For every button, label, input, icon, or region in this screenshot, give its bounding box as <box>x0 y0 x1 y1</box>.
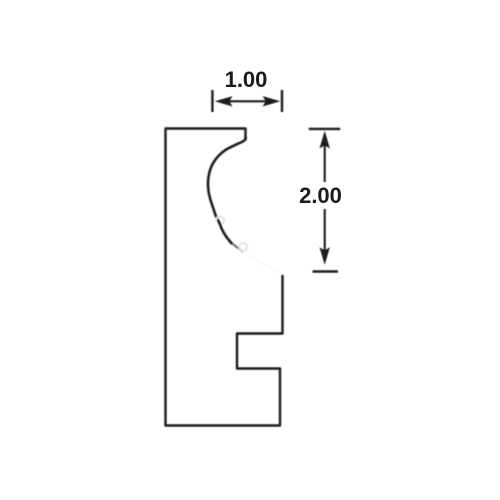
svg-text:2.00: 2.00 <box>299 183 342 208</box>
dimension 1.00 : arrow shaft <box>228 100 267 102</box>
molding profile outline <box>166 129 283 426</box>
cove curve <box>208 138 246 244</box>
dimension 1.00 : left arrowhead <box>215 96 233 106</box>
dimension 1.00 : right tick <box>281 90 283 112</box>
dimension 2.00 : up arrowhead <box>320 131 330 149</box>
dimension 1.00 : left tick <box>211 90 213 112</box>
dimension 2.00 : down arrowhead <box>320 247 330 265</box>
dimension 2.00 : bottom tick <box>313 270 339 272</box>
watermark ghost curl B <box>239 243 247 251</box>
dimension 1.00 : right arrowhead <box>263 96 281 106</box>
cove curve fading tail <box>231 243 237 247</box>
svg-text:1.00: 1.00 <box>225 67 268 92</box>
faint erased segment <box>243 252 282 274</box>
watermark ghost curl A <box>216 217 224 224</box>
dimension 2.00 : top tick <box>309 128 340 130</box>
dimension 2.00 : upper shaft <box>324 145 326 182</box>
dimension 2.00 : lower shaft <box>324 209 326 252</box>
